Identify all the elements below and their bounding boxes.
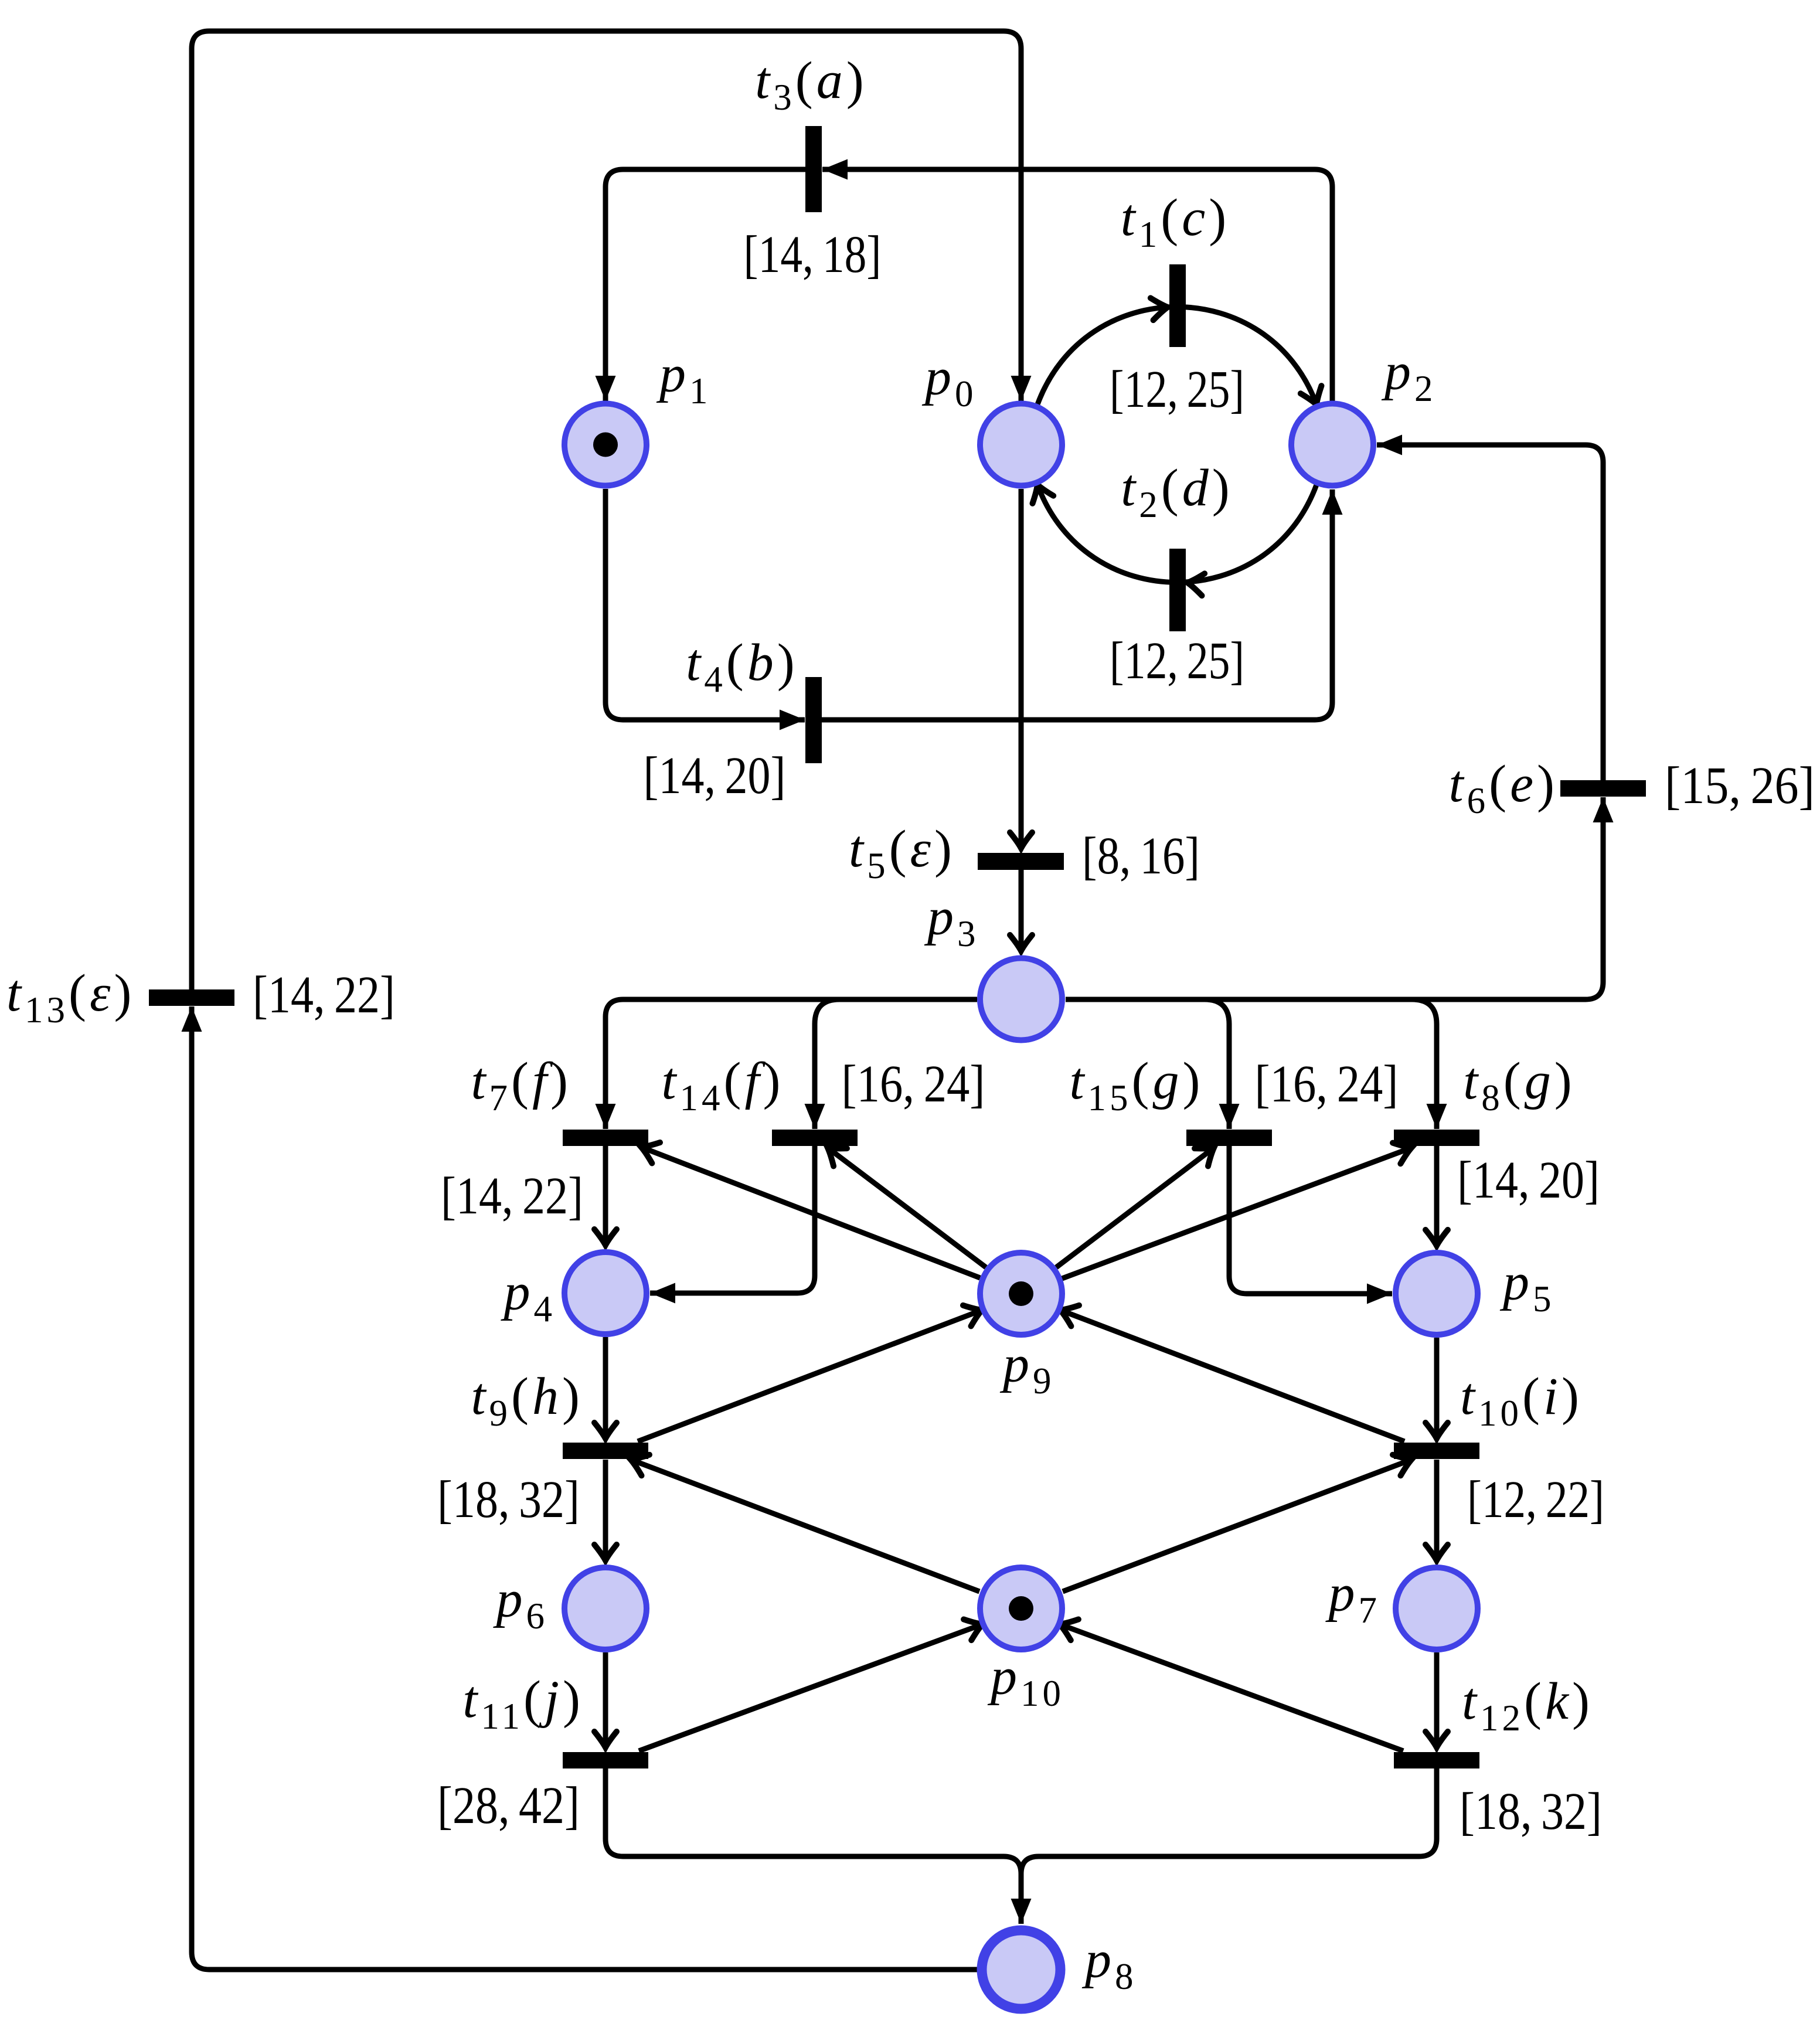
svg-text:p3: p3 (924, 888, 979, 954)
svg-text:[14, 22]: [14, 22] (441, 1167, 583, 1225)
svg-text:p5: p5 (1499, 1253, 1555, 1319)
svg-text:t10(i): t10(i) (1460, 1368, 1583, 1434)
wire p6 to t11 (603, 1652, 608, 1747)
svg-text:[16, 24]: [16, 24] (1255, 1055, 1399, 1113)
token in p10 (1009, 1596, 1033, 1621)
place p2 (1291, 404, 1373, 486)
svg-text:p7: p7 (1325, 1565, 1381, 1631)
wire t6 to p2 (1377, 445, 1603, 780)
transition t4 (805, 677, 822, 763)
svg-text:[12, 22]: [12, 22] (1467, 1471, 1604, 1529)
wire t9 to p6 (603, 1460, 608, 1560)
place p0 (980, 404, 1062, 486)
transition t10 (1394, 1443, 1479, 1459)
svg-text:p6: p6 (493, 1570, 549, 1637)
wire p3 to t6 (1066, 797, 1603, 999)
wire p1 to t4 (605, 489, 805, 720)
transition t9 (563, 1443, 648, 1459)
svg-text:[12, 25]: [12, 25] (1110, 360, 1244, 419)
svg-text:[8, 16]: [8, 16] (1082, 827, 1200, 885)
svg-text:t4(b): t4(b) (686, 634, 798, 700)
svg-text:t5(ε): t5(ε) (849, 820, 955, 886)
wire t3 to p1 (605, 169, 805, 401)
svg-text:t13(ε): t13(ε) (6, 964, 135, 1030)
svg-text:[15, 26]: [15, 26] (1665, 757, 1815, 815)
place p4 (564, 1252, 647, 1334)
place p5 (1396, 1253, 1478, 1335)
wire t7 to p4 (603, 1146, 608, 1245)
svg-text:[18, 32]: [18, 32] (1460, 1783, 1602, 1841)
svg-text:p4: p4 (501, 1263, 556, 1329)
wire p5 to t10 (1434, 1338, 1440, 1438)
svg-text:[14, 18]: [14, 18] (744, 226, 882, 284)
wire p3 to t7 (605, 999, 977, 1129)
wire t14 to p4 (650, 1146, 815, 1293)
svg-text:[14, 22]: [14, 22] (253, 966, 395, 1024)
transition t8 (1394, 1130, 1479, 1146)
svg-text:p10: p10 (987, 1648, 1064, 1714)
arc p9 to t14 (828, 1148, 986, 1267)
place p1 (564, 404, 647, 486)
svg-text:[18, 32]: [18, 32] (437, 1471, 580, 1529)
svg-text:t9(h): t9(h) (471, 1368, 583, 1434)
svg-text:p1: p1 (656, 345, 712, 411)
arrowhead p2 to t2 (on lower arc) (1186, 572, 1205, 596)
svg-text:[12, 25]: [12, 25] (1110, 632, 1244, 690)
arc p2 to t2 to p0 (lower) (1037, 485, 1316, 583)
wire p0 to t5 (1019, 489, 1024, 848)
svg-text:t1(c): t1(c) (1121, 189, 1230, 255)
wire t11 to p8 (605, 1768, 1021, 1924)
wire p3 to t8 (1412, 999, 1437, 1129)
wire p7 to t12 (1434, 1652, 1440, 1747)
transition t13 (149, 989, 234, 1006)
svg-text:p9: p9 (999, 1335, 1055, 1402)
arc p0 to t1 to p2 (upper) (1037, 307, 1316, 405)
arc p9 to t15 (1056, 1148, 1214, 1267)
transition t11 (563, 1752, 648, 1768)
transition t7 (563, 1130, 648, 1146)
wire p3 to t14 (815, 999, 839, 1129)
svg-text:[14, 20]: [14, 20] (1457, 1151, 1600, 1209)
place p8 (982, 1930, 1060, 2009)
svg-text:t12(k): t12(k) (1462, 1672, 1593, 1739)
arc p9 to t7 (641, 1147, 980, 1278)
svg-text:t3(a): t3(a) (755, 52, 867, 118)
transition t2 (1169, 549, 1186, 631)
wire p3 to t15 (1205, 999, 1229, 1129)
svg-text:t6(e): t6(e) (1449, 755, 1558, 821)
place p6 (564, 1567, 647, 1650)
wire t8 to p5 (1434, 1146, 1440, 1246)
svg-text:[14, 20]: [14, 20] (644, 747, 786, 805)
svg-text:t11(j): t11(j) (462, 1671, 584, 1737)
arc t9 to p9 (638, 1310, 982, 1441)
arc p9 to t8 (1062, 1148, 1411, 1278)
svg-text:t15(g): t15(g) (1070, 1052, 1204, 1118)
svg-text:t8(g): t8(g) (1463, 1052, 1575, 1118)
svg-text:p8: p8 (1081, 1931, 1137, 1997)
svg-text:[28, 42]: [28, 42] (437, 1777, 580, 1835)
place p3 (980, 958, 1062, 1040)
transition t12 (1394, 1752, 1479, 1768)
wire p4 to t9 (603, 1337, 608, 1438)
svg-text:p0: p0 (921, 348, 977, 414)
place p10 (980, 1567, 1062, 1650)
transition t6 (1560, 780, 1646, 797)
transition t3 (805, 126, 822, 212)
svg-text:[16, 24]: [16, 24] (842, 1055, 985, 1113)
wire t12 to p8 merge (1021, 1768, 1437, 1899)
wire t10 to p7 (1434, 1460, 1440, 1560)
place p7 (1396, 1567, 1478, 1650)
arrowhead p0 to t1 (on upper arc) (1151, 296, 1169, 320)
token in p9 (1009, 1281, 1033, 1306)
transition t14 (772, 1130, 858, 1146)
wire t5 to p3 (1019, 869, 1024, 951)
wire t15 to p5 (1229, 1146, 1392, 1294)
wire t13 to p0 (left outer loop top) (192, 31, 1021, 989)
wire t4 to p2 (822, 489, 1332, 720)
arc p10 to t10 (1063, 1460, 1411, 1591)
arc t12 to p10 (1060, 1624, 1403, 1751)
transition t1 (1169, 264, 1186, 347)
svg-text:t7(f): t7(f) (471, 1052, 572, 1118)
arc t10 to p9 (1060, 1310, 1404, 1441)
token in p1 (593, 433, 618, 457)
wire p8 to t13 (left outer loop bottom) (192, 1006, 978, 1970)
arc t11 to p10 (639, 1624, 982, 1751)
svg-text:t2(d): t2(d) (1121, 459, 1233, 525)
svg-text:p2: p2 (1381, 343, 1437, 409)
place p9 (980, 1253, 1062, 1335)
transition t15 (1186, 1130, 1272, 1146)
wire p2 to t3 (822, 169, 1332, 404)
transition t5 (978, 853, 1064, 870)
svg-text:t14(f): t14(f) (662, 1052, 784, 1118)
arc p10 to t9 (631, 1460, 979, 1591)
